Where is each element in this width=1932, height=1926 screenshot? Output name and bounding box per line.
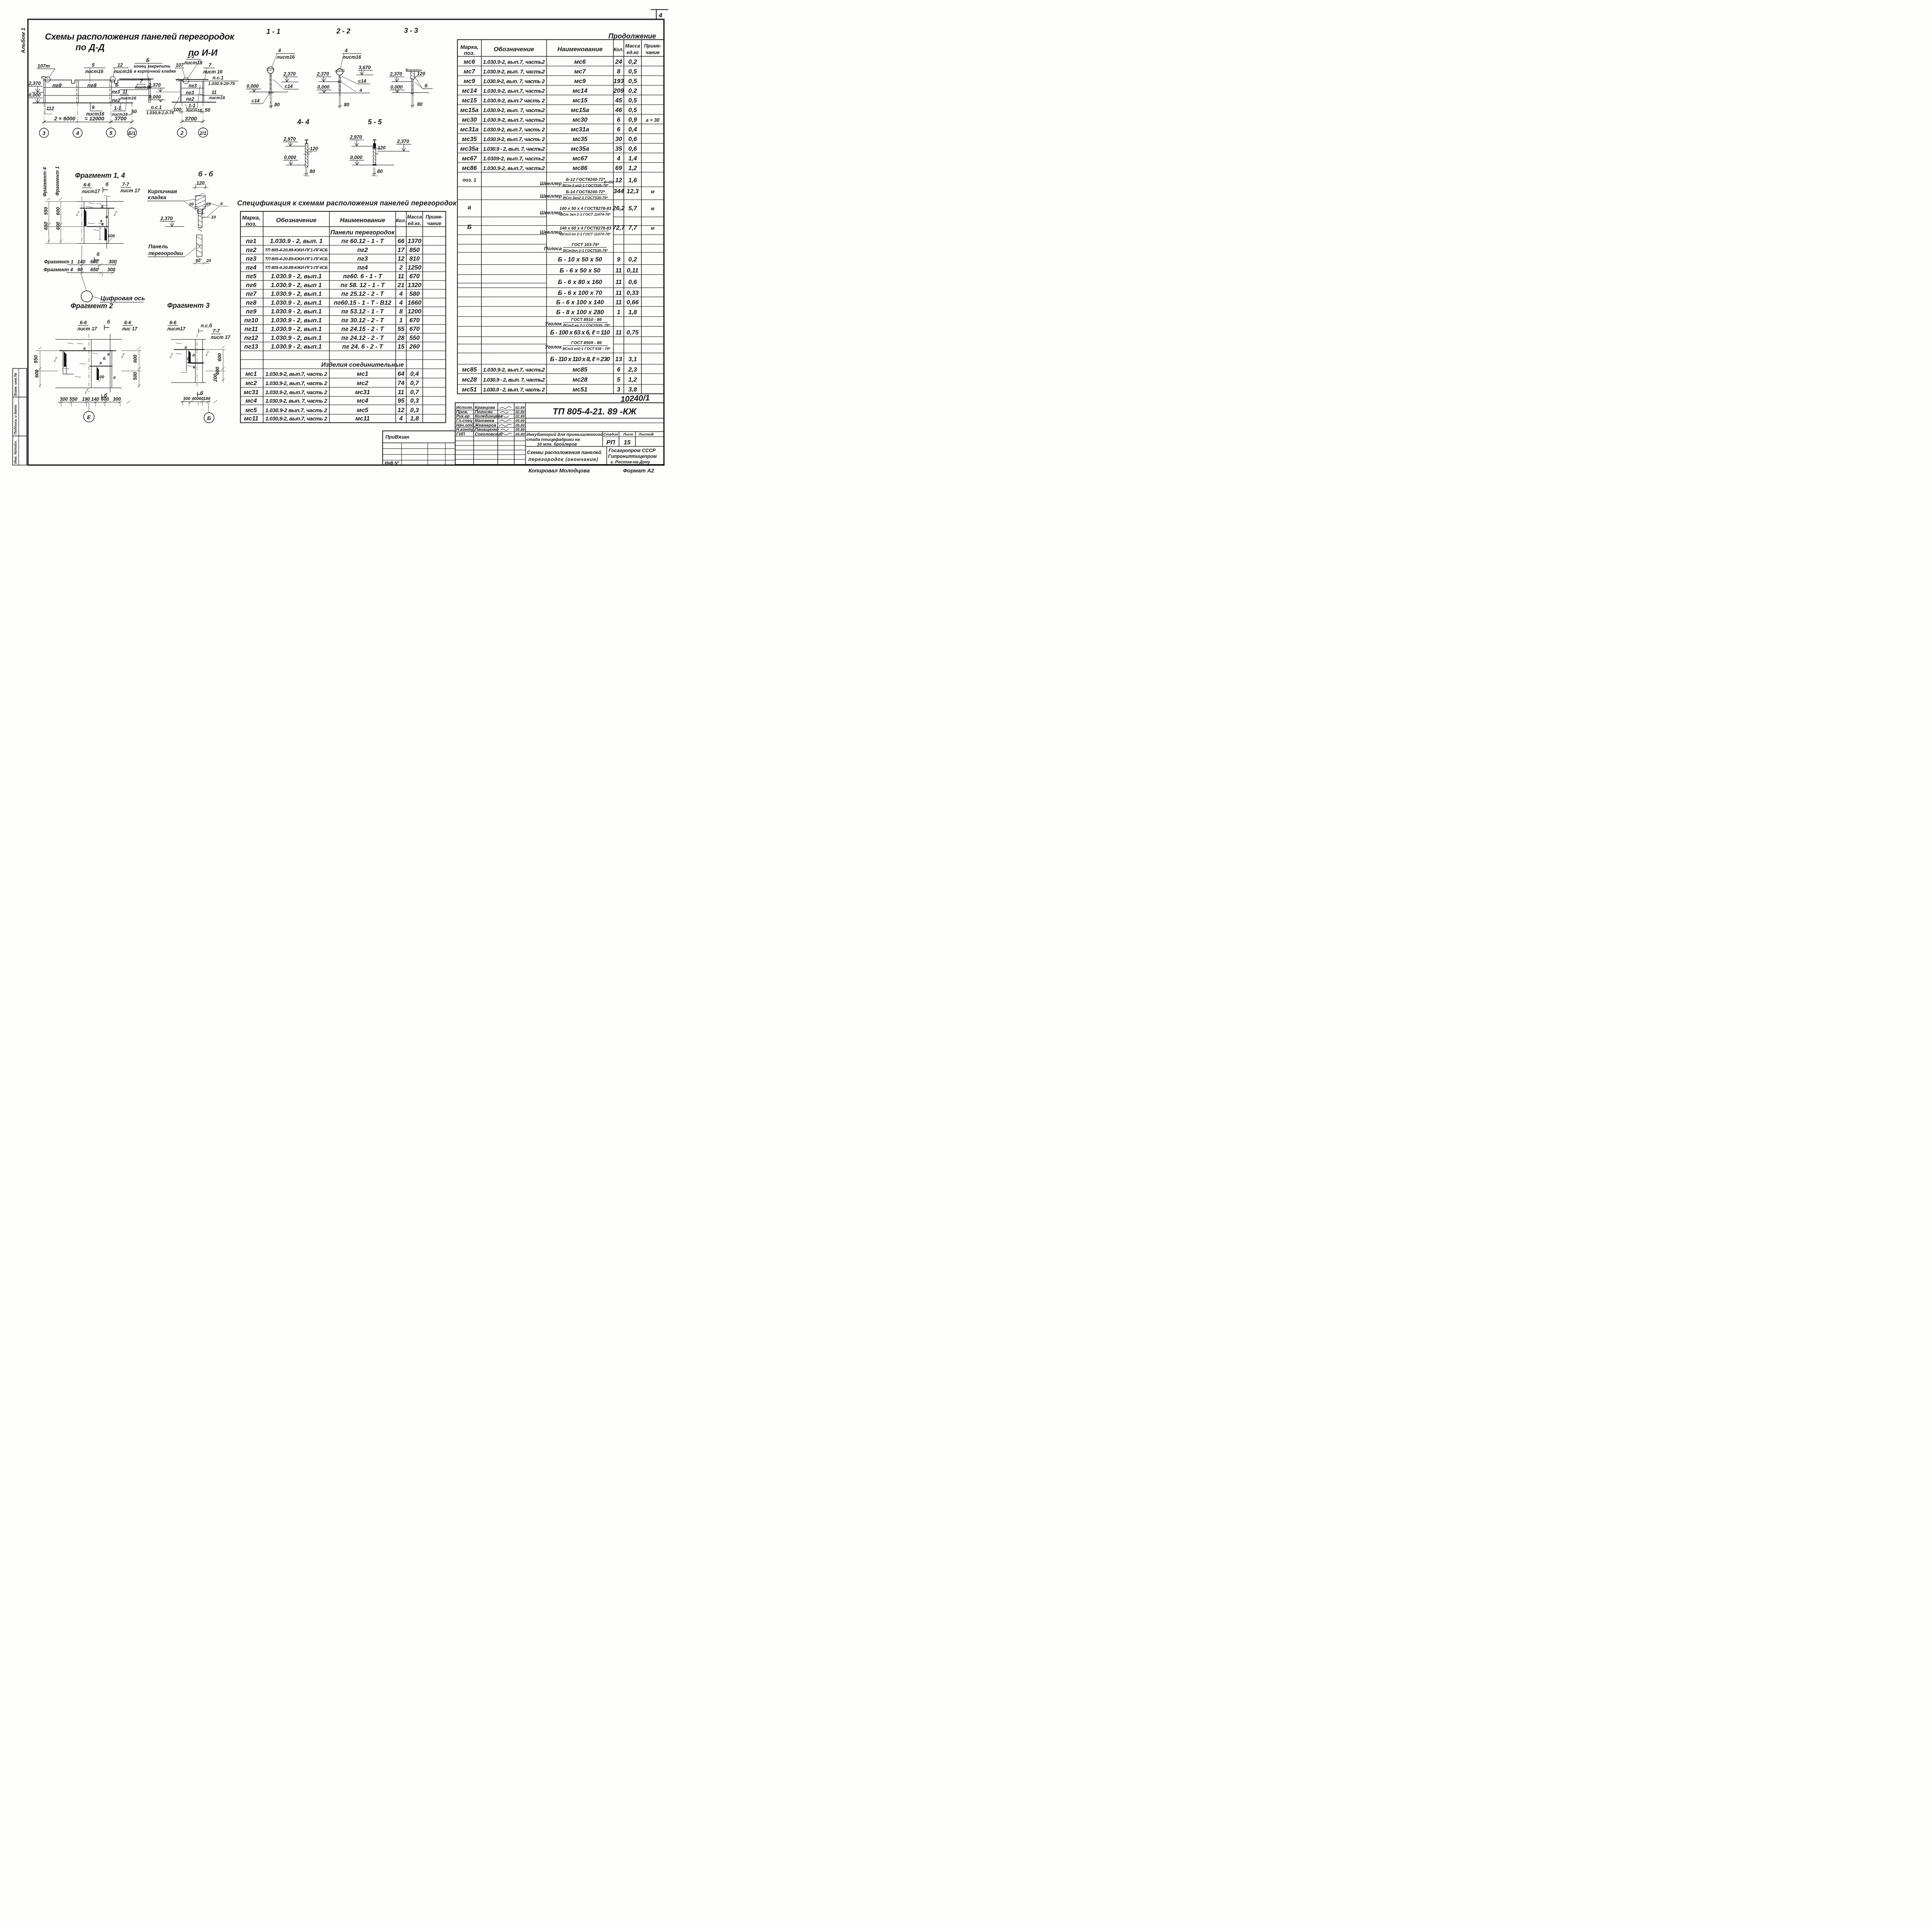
svg-text:1.030.9-2, вып.7, часть 2: 1.030.9-2, вып.7, часть 2 (483, 136, 545, 142)
svg-text:11: 11 (398, 273, 404, 280)
svg-text:193: 193 (614, 78, 624, 85)
angle 8510 row (545, 318, 610, 328)
svg-text:12: 12 (615, 177, 622, 184)
svg-text:0,33: 0,33 (627, 290, 639, 296)
sheet number box 4 (651, 10, 668, 20)
svg-text:ГОСТ 103-76*: ГОСТ 103-76* (572, 242, 600, 247)
svg-text:1.030.9-2, вып.7, часть2: 1.030.9-2, вып.7, часть2 (483, 165, 545, 171)
svg-text:Наименование: Наименование (340, 217, 385, 224)
svg-text:Б: Б (207, 415, 211, 421)
svg-text:в кирпичной кладке: в кирпичной кладке (134, 69, 176, 74)
axis circle 2 (177, 128, 187, 137)
svg-text:0,7: 0,7 (410, 380, 419, 387)
svg-text:80: 80 (274, 102, 280, 107)
svg-text:95: 95 (398, 398, 405, 404)
svg-text:стада птицефабрики на: стада птицефабрики на (527, 437, 580, 442)
axis drops (182, 102, 183, 128)
svg-text:120: 120 (378, 145, 386, 150)
svg-text:1,8: 1,8 (628, 309, 637, 316)
svg-text:670: 670 (409, 273, 420, 280)
fragment 3 detail (167, 301, 231, 423)
svg-text:6-6: 6-6 (169, 320, 177, 325)
svg-text:600: 600 (56, 222, 61, 230)
svg-text:Кол.: Кол. (614, 47, 624, 53)
svg-text:0,2: 0,2 (628, 88, 637, 94)
svg-text:Фрагмент 1, 4: Фрагмент 1, 4 (75, 172, 125, 179)
svg-text:1.030.9-2, вып.7, часть 2: 1.030.9-2, вып.7, часть 2 (265, 371, 327, 377)
svg-text:4: 4 (278, 48, 281, 53)
svg-text:55: 55 (398, 326, 405, 333)
svg-text:0,6: 0,6 (628, 279, 637, 286)
svg-text:ГОСТ 8510 - 86: ГОСТ 8510 - 86 (571, 318, 602, 322)
svg-text:2 - 2: 2 - 2 (336, 27, 350, 35)
svg-text:0,4: 0,4 (410, 371, 419, 378)
svg-text:Нач.отд.: Нач.отд. (456, 423, 475, 428)
privyazan box (383, 431, 455, 466)
svg-text:а: а (83, 346, 86, 351)
svg-text:а: а (101, 204, 104, 209)
svg-text:мс30: мс30 (573, 117, 588, 123)
svg-text:Швеллер: Швеллер (540, 230, 562, 235)
svg-text:Лист: Лист (623, 432, 634, 437)
svg-text:м: м (651, 206, 654, 211)
svg-text:1370: 1370 (408, 238, 422, 245)
svg-text:120: 120 (417, 71, 425, 77)
svg-text:мс67: мс67 (462, 155, 477, 162)
main title (45, 32, 235, 58)
svg-text:550: 550 (33, 355, 39, 363)
svg-text:Б: Б (115, 82, 119, 87)
svg-text:1200: 1200 (408, 308, 422, 315)
svg-text:600: 600 (217, 353, 223, 361)
svg-text:Госагропром СССР: Госагропром СССР (609, 448, 656, 453)
svg-text:500: 500 (133, 372, 138, 380)
axis circle 5 (106, 128, 116, 137)
svg-text:Спецификация к схемам расп: Спецификация к схемам расположения панел… (237, 199, 457, 207)
title block (455, 403, 664, 464)
svg-text:02.89: 02.89 (515, 415, 525, 419)
svg-text:Кол.: Кол. (396, 218, 406, 223)
svg-text:Фрагмент 4: Фрагмент 4 (42, 167, 48, 197)
svg-text:8: 8 (617, 68, 621, 75)
upper row lines (457, 65, 664, 67)
svg-text:11: 11 (398, 389, 404, 396)
svg-text:Б - 10 х 50 х 50: Б - 10 х 50 х 50 (558, 256, 602, 263)
svg-text:Е: Е (87, 414, 91, 420)
svg-text:б: б (104, 393, 108, 398)
svg-text:Схемы расположения панелей: Схемы расположения панелей (527, 450, 602, 455)
left margin stamp boxes (13, 369, 27, 465)
svg-text:а: а (107, 352, 110, 357)
svg-text:1.030.9-2, вып.7, часть2: 1.030.9-2, вып.7, часть2 (483, 366, 545, 373)
svg-text:3,8: 3,8 (628, 386, 637, 393)
svg-text:м: м (651, 189, 654, 194)
svg-text:20: 20 (189, 202, 194, 207)
svg-text:2,970: 2,970 (283, 136, 296, 142)
svg-text:24: 24 (615, 59, 622, 65)
svg-text:300: 300 (113, 396, 121, 402)
header (240, 226, 446, 228)
svg-text:Гипрониптицепром: Гипрониптицепром (608, 454, 657, 459)
svg-text:1.030.9 - 2, вып. 1: 1.030.9 - 2, вып. 1 (270, 238, 323, 245)
svg-text:Колединцева: Колединцева (475, 414, 503, 419)
svg-text:5 - 5: 5 - 5 (368, 118, 382, 126)
svg-text:12,3: 12,3 (627, 188, 639, 195)
svg-text:0,000: 0,000 (350, 155, 362, 160)
svg-text:мс86: мс86 (573, 165, 588, 172)
svg-text:1.030.9-2, вып.7, часть2: 1.030.9-2, вып.7, часть2 (483, 59, 545, 65)
wall right (148, 77, 150, 103)
axis drops (44, 103, 45, 128)
svg-text:0,3: 0,3 (410, 398, 419, 404)
svg-text:1.030,9-2, вып.7, часть 2: 1.030,9-2, вып.7, часть 2 (265, 415, 327, 422)
fragment body (77, 201, 124, 202)
weld circle left (45, 77, 50, 82)
panel lines (181, 87, 204, 89)
svg-text:550: 550 (43, 207, 49, 215)
signatures squiggles (500, 407, 511, 408)
svg-text:чание: чание (646, 50, 660, 55)
svg-text:мс35: мс35 (462, 136, 477, 143)
svg-text:3 - 3: 3 - 3 (404, 27, 418, 34)
svg-text:перегородки: перегородки (148, 250, 183, 256)
svg-text:200: 200 (213, 374, 218, 382)
axis circle E (88, 402, 90, 411)
wall mid axis5 (109, 81, 111, 103)
svg-text:пг 60.12 - 1 - Т: пг 60.12 - 1 - Т (341, 238, 384, 245)
svg-text:Соколовский: Соколовский (475, 432, 503, 437)
svg-text:5: 5 (92, 63, 95, 68)
svg-text:Б/1: Б/1 (128, 131, 136, 136)
doc number cell (526, 417, 664, 419)
axis circle 3 (39, 128, 49, 138)
svg-text:1.0309-2, вып.7, часть2: 1.0309-2, вып.7, часть2 (483, 155, 545, 162)
svg-text:0,66: 0,66 (627, 299, 639, 306)
svg-text:лист16: лист16 (120, 96, 137, 101)
svg-text:мс15а: мс15а (460, 107, 479, 114)
svg-text:0,000: 0,000 (391, 85, 403, 90)
svg-text:а: а (113, 375, 116, 380)
svg-text:0,5: 0,5 (628, 107, 637, 114)
svg-text:ГИП: ГИП (456, 432, 466, 437)
dim line 3700 (182, 121, 203, 123)
section b-b wall detail (147, 170, 228, 264)
signature area verticals (473, 403, 475, 464)
svg-text:7-7: 7-7 (213, 328, 220, 334)
svg-text:лис 17: лис 17 (122, 326, 138, 332)
svg-text:1.030.9 - 2, вып.1: 1.030.9 - 2, вып.1 (271, 273, 322, 280)
svg-text:5: 5 (617, 377, 621, 383)
main dim line (44, 121, 132, 123)
svg-text:120: 120 (310, 146, 318, 151)
svg-text:7: 7 (209, 63, 212, 68)
svg-text:б: б (105, 182, 109, 187)
svg-text:Масса: Масса (625, 43, 640, 49)
svg-text:11: 11 (616, 279, 622, 286)
svg-text:0,2: 0,2 (628, 59, 637, 65)
svg-text:1250: 1250 (408, 264, 422, 271)
svg-text:209: 209 (613, 88, 624, 94)
svg-text:4: 4 (345, 48, 348, 53)
svg-text:мс85: мс85 (573, 366, 588, 373)
svg-text:а: а (360, 87, 362, 93)
wall left (180, 80, 182, 102)
svg-text:пг3: пг3 (189, 83, 197, 88)
svg-text:мс14: мс14 (462, 88, 477, 94)
body (56, 339, 122, 340)
svg-text:11: 11 (616, 290, 622, 296)
svg-text:лист16: лист16 (342, 54, 361, 60)
svg-text:мс7: мс7 (464, 68, 476, 75)
svg-text:3700: 3700 (185, 116, 197, 122)
svg-text:10 млн. бройлеров: 10 млн. бройлеров (537, 442, 577, 447)
svg-text:лист17: лист17 (167, 326, 186, 332)
svg-text:лист16: лист16 (209, 95, 226, 100)
svg-text:Жевнеров: Жевнеров (474, 423, 497, 428)
svg-text:Панели перегородок: Панели перегородок (330, 229, 395, 236)
svg-text:мс11: мс11 (355, 415, 370, 422)
stage table (602, 432, 604, 447)
svg-text:2: 2 (399, 264, 403, 271)
svg-text:Инв. №подл.: Инв. №подл. (14, 440, 18, 464)
svg-text:300: 300 (60, 396, 68, 402)
svg-text:лист 16: лист 16 (202, 69, 223, 75)
svg-text:7-7: 7-7 (122, 182, 129, 187)
panel row line mid (44, 95, 150, 97)
svg-text:140: 140 (77, 259, 85, 265)
svg-text:мс31а: мс31а (460, 126, 479, 133)
svg-text:5: 5 (109, 130, 112, 136)
svg-text:670: 670 (409, 317, 420, 324)
svg-text:9: 9 (617, 256, 621, 263)
svg-text:100: 100 (173, 107, 182, 112)
svg-text:пг 24.15 - 2 - Т: пг 24.15 - 2 - Т (341, 326, 384, 333)
svg-text:поз.: поз. (246, 221, 257, 227)
svg-text:пг5: пг5 (246, 273, 257, 280)
column lines (262, 211, 264, 423)
svg-text:650: 650 (43, 222, 49, 230)
svg-text:6: 6 (617, 126, 621, 133)
svg-text:ВСт3 кп 2-1 ГОСТ 11474-76*: ВСт3 кп 2-1 ГОСТ 11474-76* (560, 232, 611, 236)
ground line (33, 101, 133, 104)
svg-text:2,970: 2,970 (350, 134, 362, 140)
svg-text:80: 80 (344, 102, 349, 107)
svg-text:0,75: 0,75 (627, 330, 639, 336)
svg-text:а: а (192, 353, 195, 357)
svg-text:пг 30.12 - 2 - Т: пг 30.12 - 2 - Т (341, 317, 384, 324)
svg-text:Швеллер: Швеллер (540, 210, 562, 216)
svg-text:6-6: 6-6 (124, 320, 131, 325)
svg-text:б - б: б - б (198, 170, 213, 178)
svg-text:мс7: мс7 (574, 68, 586, 75)
svg-text:Масса: Масса (407, 214, 422, 220)
svg-text:Наименование: Наименование (557, 46, 602, 53)
svg-text:пг4: пг4 (357, 264, 368, 271)
svg-text:Фрагмент 3: Фрагмент 3 (167, 301, 209, 309)
svg-text:Кравцова: Кравцова (475, 405, 495, 410)
svg-text:107: 107 (176, 63, 184, 68)
svg-text:1.030.9-20-75: 1.030.9-20-75 (208, 82, 235, 86)
svg-text:4: 4 (399, 291, 403, 298)
svg-text:2,370: 2,370 (28, 81, 41, 86)
svg-text:лист16: лист16 (276, 54, 295, 60)
svg-text:пг3: пг3 (112, 89, 120, 95)
svg-text:Б - 8 х 100 х 280: Б - 8 х 100 х 280 (556, 309, 604, 316)
svg-text:мс5: мс5 (245, 407, 257, 413)
svg-text:1-1: 1-1 (189, 103, 196, 109)
svg-text:Б: Б (146, 58, 150, 63)
svg-text:мс15: мс15 (462, 97, 477, 104)
svg-text:650: 650 (90, 267, 99, 272)
svg-text:Изделия соединительные: Изделия соединительные (321, 362, 404, 368)
svg-text:Уголок: Уголок (545, 344, 562, 350)
svg-text:ВСт 3кп2-1 ГОСТ535-79*: ВСт 3кп2-1 ГОСТ535-79* (563, 196, 608, 200)
right continuation table (457, 32, 664, 394)
svg-text:мс9: мс9 (464, 78, 475, 85)
svg-text:140 х 60 х 4 ГОСТ8278-83: 140 х 60 х 4 ГОСТ8278-83 (560, 226, 611, 231)
poz.1 channel row (463, 177, 637, 188)
signature rows (455, 409, 526, 411)
svg-text:65: 65 (206, 202, 211, 207)
svg-text:а: а (105, 214, 108, 219)
svg-text:ТП 805-4-21. 89 -КЖ: ТП 805-4-21. 89 -КЖ (553, 407, 637, 417)
svg-text:0,000: 0,000 (284, 155, 296, 160)
svg-text:а: а (100, 361, 102, 366)
axis circle B/1 (128, 128, 137, 137)
svg-text:2/1: 2/1 (199, 131, 206, 136)
svg-text:11: 11 (122, 89, 128, 95)
svg-text:21: 21 (397, 282, 405, 289)
svg-text:1.030.9 - 2, вып.1: 1.030.9 - 2, вып.1 (271, 344, 322, 350)
svg-text:26,2: 26,2 (612, 205, 624, 212)
svg-text:1.030.9 - 2, вып. 7, часть 2: 1.030.9 - 2, вып. 7, часть 2 (483, 386, 545, 393)
svg-text:550: 550 (70, 396, 78, 402)
svg-text:Стадия: Стадия (604, 432, 618, 437)
svg-text:с14: с14 (252, 98, 260, 104)
svg-text:Швеллер: Швеллер (540, 193, 562, 199)
svg-text:Н.контр.: Н.контр. (456, 427, 476, 432)
svg-text:0,000: 0,000 (247, 83, 259, 89)
svg-text:20: 20 (206, 259, 211, 263)
svg-text:60: 60 (199, 396, 204, 401)
B-14 channel row (540, 188, 654, 200)
sheet frame (28, 19, 664, 465)
svg-text:1,6: 1,6 (628, 177, 637, 184)
svg-text:а: а (185, 345, 187, 350)
svg-text:пг4: пг4 (246, 264, 256, 271)
svg-text:1.030.9-2, вып.7 часть 2: 1.030.9-2, вып.7 часть 2 (483, 97, 545, 104)
footer notes (529, 468, 654, 474)
svg-text:05.89: 05.89 (515, 419, 525, 423)
row lines (240, 236, 446, 238)
svg-text:а: а (220, 201, 223, 206)
svg-text:12: 12 (117, 63, 123, 68)
svg-text:0,11: 0,11 (627, 267, 638, 274)
svg-text:3700: 3700 (114, 116, 126, 122)
scheme D-D panel elevation (28, 58, 176, 138)
svg-text:112: 112 (46, 106, 54, 111)
svg-text:1.030.9-2 вып.7, часть 2: 1.030.9-2 вып.7, часть 2 (265, 407, 327, 413)
svg-text:пг3: пг3 (357, 256, 368, 262)
svg-text:Панащенко: Панащенко (475, 427, 499, 432)
rows PG (244, 238, 422, 350)
svg-text:мс9: мс9 (574, 78, 586, 85)
svg-text:Б - 6 х 80 х 160: Б - 6 х 80 х 160 (558, 279, 602, 286)
svg-text:15: 15 (624, 439, 631, 446)
svg-text:мс14: мс14 (573, 88, 588, 94)
svg-text:чание: чание (427, 221, 441, 226)
svg-text:0,000: 0,000 (317, 85, 329, 90)
svg-text:0,5: 0,5 (628, 97, 637, 104)
svg-text:17: 17 (398, 247, 405, 254)
svg-text:а: а (193, 365, 195, 369)
svg-text:02.89: 02.89 (515, 406, 525, 410)
svg-text:ед.кг: ед.кг (627, 50, 639, 55)
svg-text:1,4: 1,4 (628, 155, 637, 162)
svg-text:пг2: пг2 (357, 247, 368, 254)
svg-text:лист17: лист17 (81, 189, 100, 194)
svg-text:Схемы расположения панелей: Схемы расположения панелей перегородок (45, 32, 235, 42)
svg-text:600: 600 (133, 355, 138, 363)
svg-text:ВСт3кп 2-1 ГОСТ535-79*: ВСт3кп 2-1 ГОСТ535-79* (563, 248, 608, 253)
svg-text:Погосян: Погосян (475, 410, 493, 415)
svg-text:мс86: мс86 (462, 165, 477, 172)
section 3-3 (389, 27, 433, 108)
svg-text:7,7: 7,7 (628, 225, 637, 231)
svg-text:11: 11 (616, 330, 622, 336)
svg-text:1.030.9 - 2, вып.1: 1.030.9 - 2, вып.1 (271, 335, 322, 341)
svg-text:Матвеев: Матвеев (475, 419, 495, 423)
svg-text:б: б (97, 252, 100, 257)
svg-text:лист16: лист16 (85, 69, 104, 74)
svg-text:1,2: 1,2 (628, 165, 637, 172)
svg-text:пг 53.12 - 1 - Т: пг 53.12 - 1 - Т (341, 308, 384, 315)
svg-text:а: а (468, 204, 471, 211)
svg-text:74: 74 (398, 380, 405, 387)
svg-text:1.030.9 - 2, вып. 7, часть2: 1.030.9 - 2, вып. 7, часть2 (483, 146, 545, 152)
svg-text:пг 58. 12 - 1 - Т: пг 58. 12 - 1 - Т (340, 282, 385, 289)
brick block (196, 196, 206, 214)
svg-text:80: 80 (310, 169, 315, 174)
svg-text:с14: с14 (358, 78, 366, 84)
svg-text:пг11: пг11 (245, 326, 258, 333)
callout 9 list16 bottom (90, 104, 92, 111)
wall mid axis4 (76, 81, 78, 103)
svg-text:1.030.9-2, вып.7, часть2: 1.030.9-2, вып.7, часть2 (483, 117, 545, 123)
a channel row (468, 204, 654, 217)
svg-text:мс67: мс67 (573, 155, 588, 162)
digital axis note (82, 276, 87, 291)
svg-text:мс2: мс2 (357, 380, 368, 387)
svg-text:4: 4 (658, 12, 662, 19)
svg-text:15: 15 (398, 344, 405, 350)
svg-text:б: б (187, 357, 190, 361)
svg-text:мс15а: мс15а (571, 107, 589, 114)
svg-text:1.030.9 - 2, вып.1: 1.030.9 - 2, вып.1 (271, 308, 322, 315)
svg-text:ТП 805-4-20.89-КЖИ-ПГ1-ПГ4СБ: ТП 805-4-20.89-КЖИ-ПГ1-ПГ4СБ (265, 248, 328, 253)
svg-text:3,670: 3,670 (359, 65, 371, 70)
svg-text:2,370: 2,370 (283, 71, 296, 77)
svg-text:Инкубаторий для промышленного: Инкубаторий для промышленного (527, 432, 603, 437)
svg-text:мс51: мс51 (462, 386, 477, 393)
svg-text:Фрагмент 2: Фрагмент 2 (71, 302, 113, 310)
section 4-4 (283, 118, 318, 176)
svg-text:50: 50 (131, 109, 137, 114)
svg-text:46: 46 (615, 107, 622, 114)
svg-text:пг7: пг7 (246, 291, 257, 298)
svg-text:мс31: мс31 (355, 389, 370, 396)
svg-text:Взам. инв.№: Взам. инв.№ (14, 373, 18, 396)
